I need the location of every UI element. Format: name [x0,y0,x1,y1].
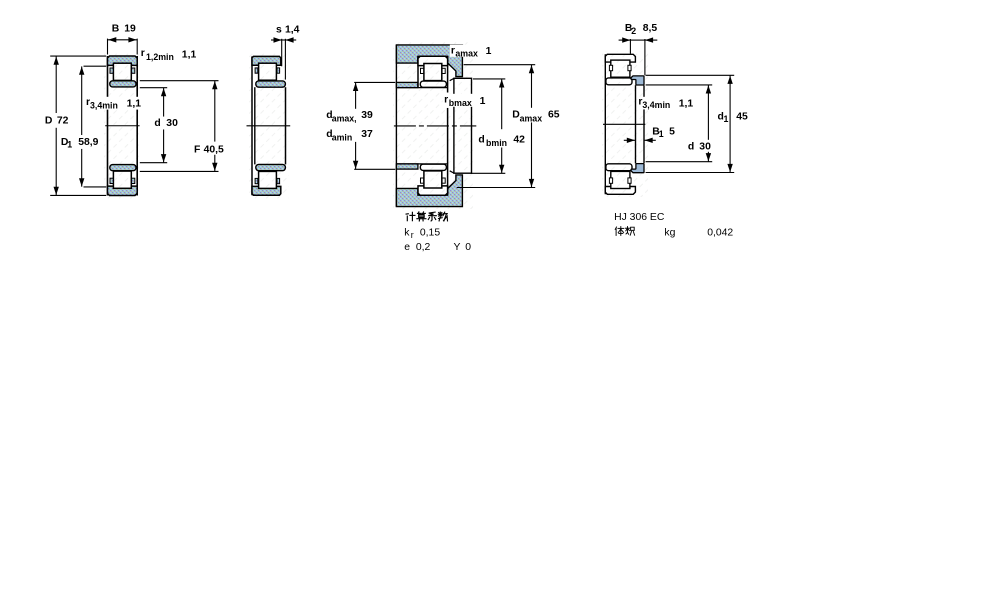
fig3 dim D_a extension lines [464,64,536,66]
svg-text:3,4min: 3,4min [642,100,670,110]
fig4 inner ring upper (outline) [606,78,632,85]
fig1 dim F line [214,81,216,142]
svg-text:0: 0 [465,242,471,253]
fig1 outer ring lower section [108,186,138,195]
svg-text:r: r [444,94,448,105]
fig4 cage lower-right [628,178,631,183]
fig3 cage lower-right [442,178,445,183]
fig2 dim s arrows [274,37,282,42]
fig3 shaft seat lower [396,164,418,169]
fig4 cage upper-right [628,65,631,70]
fig4 outer ring upper (outline) [605,54,635,62]
fig3 dim D_a arrows [529,65,534,73]
fig2 inner ring lower (displaced) [256,164,286,170]
fig2 cage lower-right [277,178,280,183]
svg-text:5: 5 [669,126,675,137]
svg-text:1,1: 1,1 [679,98,694,109]
svg-text:39: 39 [361,110,373,121]
svg-text:3,4min: 3,4min [90,100,118,110]
svg-text:45: 45 [736,111,748,122]
svg-text:bmax: bmax [449,98,472,108]
svg-text:r: r [141,48,145,59]
fig1 dim B left arrow [108,37,116,42]
fig3 shaft seat surface lines [396,87,447,89]
fig2 outer ring lower section [252,186,281,195]
fig1 dim D line [55,56,57,113]
svg-text:40,5: 40,5 [204,144,224,155]
svg-text:0,042: 0,042 [707,227,733,238]
fig3 dim d_b extension lines [473,78,505,80]
fig1 cage upper-right [132,68,135,73]
fig1 dim D1 line [81,66,83,135]
fig2 roller lower [259,171,277,188]
svg-text:1,1: 1,1 [182,50,197,61]
fig3 dim D_a line [531,65,533,108]
fig4 bore lines [635,85,637,163]
faint hatch fig4 backdrop [602,51,648,197]
fig4 roller upper [611,60,630,77]
svg-text:0,15: 0,15 [420,227,440,238]
svg-text:30: 30 [166,118,178,129]
fig3 dim d_b arrows [499,79,504,87]
fig3 bearing left face line [417,56,419,87]
svg-text:8,5: 8,5 [643,23,658,34]
fig1 dim F extension lines [140,80,219,82]
svg-text:d: d [478,134,484,145]
svg-text:2: 2 [631,26,636,36]
svg-text:1: 1 [67,139,72,149]
fig3 dim d_a arrows [353,83,358,91]
fig3 inner ring lower (outline) [420,164,446,170]
fig1 cage lower-left [110,178,113,183]
fig1 outer ring upper section [108,56,138,65]
fig3 shaft shoulder block [454,78,472,173]
faint hatch fig3 backdrop [393,42,473,209]
svg-text:F: F [194,144,200,155]
fig4 dim d1 line [729,76,731,173]
svg-text:1,4: 1,4 [285,25,300,36]
fig4 dim d arrows [706,85,711,93]
svg-text:HJ 306 EC: HJ 306 EC [614,212,665,223]
fig3 cage upper-right [442,68,445,73]
svg-text:amax,: amax, [332,114,357,124]
fig1 inner ring lower [110,165,136,171]
svg-text:65: 65 [548,110,560,121]
fig2 cage upper-left [255,68,258,73]
fig1 dim D arrows [54,57,59,65]
svg-text:1: 1 [486,46,492,57]
fig4 dim d line [707,85,709,140]
fig1 cage upper-left [110,68,113,73]
fig3 wall left edge line [395,45,397,207]
fig2 outer ring left face line [251,56,253,195]
glyph 体 [615,227,624,236]
fig3 dim d_b line [501,79,503,129]
svg-text:amin: amin [332,133,353,143]
fig4 dim d extension lines [646,84,713,86]
svg-text:k: k [404,227,410,238]
fig1 dim B right arrow [128,37,136,42]
faint hatch fig2 backdrop [249,53,289,199]
svg-text:19: 19 [124,23,136,34]
glyph 计 [406,212,415,220]
svg-text:amax: amax [520,113,543,123]
fig3 roller upper [424,64,442,81]
fig2 inner ring bore right line [285,87,287,164]
svg-text:58,9: 58,9 [78,137,98,148]
svg-text:1: 1 [659,129,664,139]
fig3 dim d_a line [355,83,357,109]
fig1 dim D1 extension lines [84,65,107,67]
fig4 inner ring lower (outline) [606,164,632,171]
fig4 cage lower-left [609,178,612,183]
fig4 dim B2 extension lines [629,39,631,54]
fig3 cage lower-left [421,178,424,183]
fig1 dim D extension lines [50,55,106,57]
fig3 inner ring upper (outline) [420,81,446,87]
faint hatch fig1 backdrop [104,53,139,199]
fig3 housing upper section [396,45,462,77]
fig1 dim d line [163,88,165,117]
fig3 outer ring upper (outline) [418,56,448,65]
fig1 dim d arrows [161,88,166,96]
svg-text:1,2min: 1,2min [146,52,174,62]
fig3 axis centerline (dash-dot) [394,125,476,127]
svg-text:42: 42 [513,134,525,145]
fig2 cage upper-right [277,68,280,73]
fig2 outer ring upper section [252,56,281,65]
svg-text:d: d [688,141,694,152]
fig3 housing lower section [396,175,462,207]
svg-text:s: s [276,25,282,36]
svg-text:r: r [451,45,455,56]
fig4 HJ ring lip face line [643,85,645,163]
glyph 积 [625,227,634,236]
fig4 dim B2 arrows [622,37,630,42]
fig4 HJ angle ring upper section [631,76,644,85]
svg-text:72: 72 [57,115,69,126]
fig2 roller upper [259,63,277,80]
svg-text:Y: Y [454,242,461,253]
fig3 roller lower [424,171,442,188]
glyph 系 [428,212,436,221]
svg-text:kg: kg [664,227,675,238]
fig4 HJ angle ring lower section [631,164,644,173]
fig1 dim B extension lines [107,39,109,55]
fig1 bearing right face line [136,56,138,196]
svg-text:d: d [154,118,160,129]
fig4 outer ring lower (outline) [605,187,635,195]
fig3 dim d_a extension lines [354,81,395,83]
fig4 cage upper-left [609,65,612,70]
fig3 shaft seat upper [396,82,418,87]
fig4 dim d1 arrows [727,76,732,84]
svg-text:1: 1 [724,114,729,124]
fig3 outer ring lower (outline) [418,186,448,195]
svg-text:bmin: bmin [486,138,507,148]
fig4 axis centerline [603,123,645,125]
glyph 数 [438,212,447,221]
fig4 dim B2 line [619,39,631,41]
fig2 inner ring bore left line [254,87,256,164]
fig2 inner ring upper (displaced) [256,81,286,87]
fig4 roller lower [611,171,630,188]
fig2 dim s line [271,39,282,41]
svg-text:1,1: 1,1 [127,98,142,109]
fig1 dim F arrows [212,81,217,89]
fig1 bearing left face line [107,56,109,196]
svg-text:B: B [112,23,120,34]
fig1 axis centerline [105,125,139,127]
fig1 inner ring upper [110,81,136,87]
svg-text:0,2: 0,2 [416,242,431,253]
fig1 dim B line [108,39,138,41]
svg-text:D: D [45,115,53,126]
fig4 bearing left face line [604,54,606,194]
fig1 cage lower-right [132,178,135,183]
fig1 dim D1 arrows [79,67,84,75]
fig3 bearing right face line [447,56,449,92]
fig4 dim d1 extension lines [646,74,735,76]
fig3 shoulder fillet chamfers [450,78,454,80]
glyph 算 [417,212,426,221]
fig2 dim s extension lines [281,39,283,67]
fig4 dim B1 arrows [627,138,635,143]
svg-text:1: 1 [480,96,486,107]
fig1 dim d extension lines [140,87,167,89]
fig4 dim B1 lines [624,139,635,141]
fig2 cage lower-left [255,178,258,183]
fig1 roller upper [113,63,131,80]
fig2 axis centerline [247,125,291,127]
fig1 roller lower [113,171,131,188]
fig3 cage upper-left [421,68,424,73]
svg-text:e: e [404,242,410,253]
svg-text:30: 30 [699,141,711,152]
svg-text:amax: amax [455,48,478,58]
svg-text:r: r [411,230,414,240]
svg-text:37: 37 [361,129,373,140]
